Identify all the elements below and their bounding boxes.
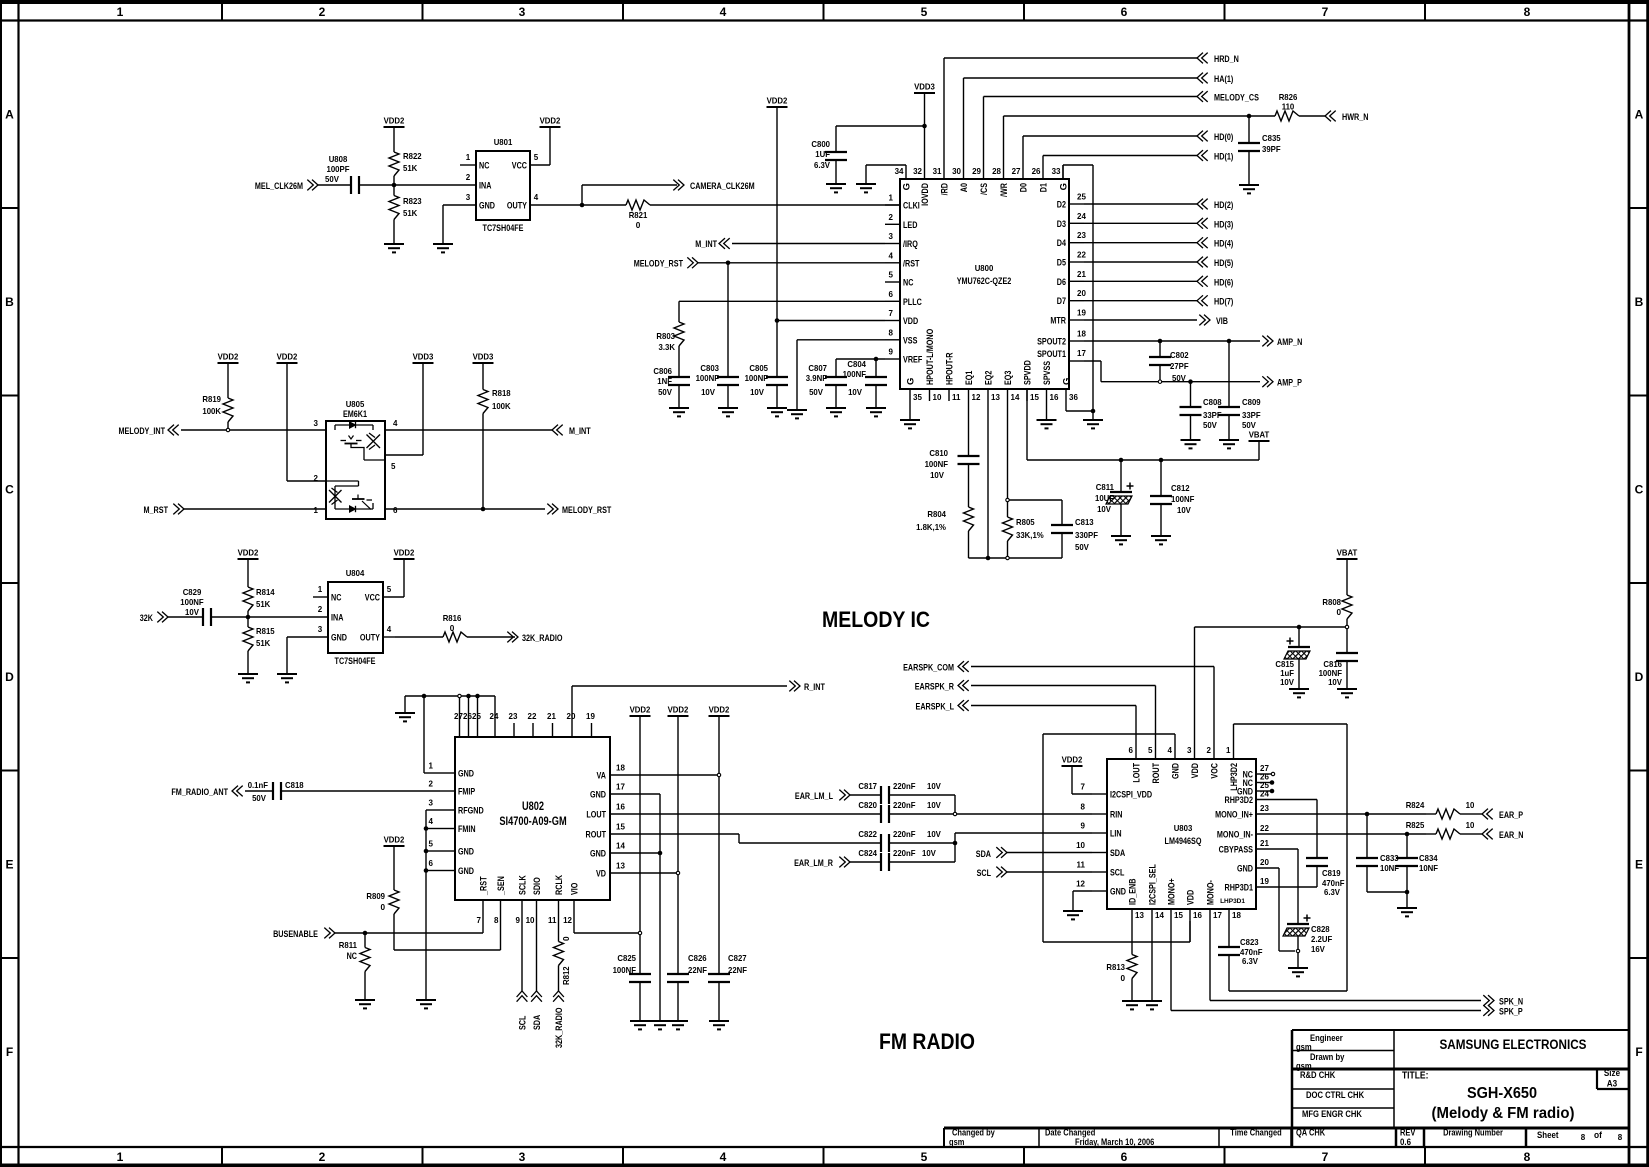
svg-text:15: 15 (1174, 911, 1183, 920)
svg-text:100NF: 100NF (843, 370, 866, 379)
svg-text:51K: 51K (256, 639, 270, 648)
svg-text:19: 19 (1077, 309, 1086, 318)
svg-text:32K_RADIO: 32K_RADIO (554, 1008, 565, 1049)
svg-text:EAR_N: EAR_N (1499, 830, 1524, 841)
svg-text:6: 6 (1121, 5, 1128, 19)
svg-text:SDA: SDA (976, 849, 991, 860)
svg-text:SI4700-A09-GM: SI4700-A09-GM (499, 814, 566, 828)
svg-text:3.9NF: 3.9NF (806, 374, 827, 383)
svg-text:100NF: 100NF (696, 374, 719, 383)
svg-text:VDD2: VDD2 (540, 117, 561, 126)
svg-text:10V: 10V (1328, 678, 1342, 687)
svg-text:15: 15 (1030, 393, 1039, 402)
svg-text:R804: R804 (927, 510, 946, 519)
svg-text:10: 10 (933, 393, 942, 402)
svg-text:10V: 10V (930, 471, 944, 480)
svg-text:SPVDD: SPVDD (1023, 360, 1034, 385)
svg-text:C808: C808 (1203, 398, 1222, 407)
svg-text:23: 23 (1077, 231, 1086, 240)
svg-text:SAMSUNG ELECTRONICS: SAMSUNG ELECTRONICS (1440, 1037, 1587, 1052)
svg-text:17: 17 (1213, 911, 1222, 920)
svg-text:4: 4 (534, 193, 539, 202)
svg-text:6: 6 (393, 506, 398, 515)
svg-text:gsm: gsm (1296, 1042, 1312, 1052)
svg-text:C834: C834 (1419, 854, 1438, 863)
svg-text:22: 22 (1260, 824, 1269, 833)
svg-text:13: 13 (1135, 911, 1144, 920)
svg-text:18: 18 (1077, 330, 1086, 339)
svg-text:R_INT: R_INT (804, 682, 825, 693)
svg-text:C812: C812 (1171, 484, 1190, 493)
svg-text:HD(3): HD(3) (1214, 219, 1233, 230)
svg-text:10V: 10V (185, 608, 199, 617)
svg-text:SDA: SDA (532, 1015, 543, 1030)
svg-text:15: 15 (616, 823, 625, 832)
svg-text:13: 13 (991, 393, 1000, 402)
svg-text:24: 24 (1077, 212, 1086, 221)
svg-text:10: 10 (1466, 801, 1475, 810)
svg-text:SDA: SDA (1110, 848, 1125, 859)
svg-text:100NF: 100NF (925, 460, 948, 469)
svg-text:8: 8 (1618, 1133, 1623, 1142)
svg-text:220nF: 220nF (893, 782, 916, 791)
svg-text:SPVSS: SPVSS (1042, 361, 1053, 385)
svg-text:D1: D1 (1039, 182, 1050, 192)
svg-text:R805: R805 (1016, 518, 1035, 527)
svg-text:32K: 32K (140, 613, 153, 624)
svg-text:50V: 50V (1242, 421, 1256, 430)
svg-text:CLKI: CLKI (903, 201, 920, 212)
svg-text:U801: U801 (494, 138, 513, 147)
svg-text:C833: C833 (1380, 854, 1399, 863)
svg-text:/CS: /CS (979, 183, 990, 195)
svg-text:C825: C825 (617, 954, 636, 963)
svg-text:0: 0 (1120, 974, 1125, 983)
svg-text:20: 20 (1260, 858, 1269, 867)
svg-text:GND: GND (458, 866, 474, 877)
svg-text:VBAT: VBAT (1249, 431, 1270, 440)
svg-text:R822: R822 (403, 152, 422, 161)
svg-text:2: 2 (1207, 746, 1212, 755)
svg-text:GND: GND (1110, 887, 1126, 898)
svg-text:C811: C811 (1096, 483, 1115, 492)
svg-text:INA: INA (331, 613, 343, 624)
svg-text:ID_ENB: ID_ENB (1128, 878, 1139, 905)
svg-text:TC7SH04FE: TC7SH04FE (335, 656, 376, 667)
svg-text:32K_RADIO: 32K_RADIO (522, 633, 563, 644)
svg-text:11: 11 (1077, 861, 1086, 870)
svg-text:34: 34 (895, 167, 904, 176)
svg-text:LM4946SQ: LM4946SQ (1165, 836, 1202, 847)
svg-text:FMIP: FMIP (458, 787, 476, 798)
svg-text:0: 0 (1336, 608, 1341, 617)
svg-text:VDD3: VDD3 (413, 353, 434, 362)
svg-text:M_RST: M_RST (144, 505, 169, 516)
svg-text:C815: C815 (1275, 660, 1294, 669)
svg-text:8: 8 (1524, 5, 1531, 19)
svg-text:Time Changed: Time Changed (1230, 1128, 1281, 1138)
svg-text:Date Changed: Date Changed (1045, 1128, 1095, 1138)
svg-text:A3: A3 (1607, 1079, 1617, 1089)
svg-text:35: 35 (913, 393, 922, 402)
svg-text:6: 6 (1121, 1150, 1128, 1164)
svg-text:16V: 16V (1311, 945, 1325, 954)
svg-text:R825: R825 (1406, 821, 1425, 830)
svg-text:C829: C829 (183, 588, 202, 597)
svg-text:17: 17 (616, 783, 625, 792)
svg-text:HD(6): HD(6) (1214, 277, 1233, 288)
svg-text:1NF: 1NF (657, 377, 672, 386)
svg-text:SPK_P: SPK_P (1499, 1007, 1523, 1018)
svg-text:R819: R819 (202, 395, 221, 404)
svg-text:VDD3: VDD3 (914, 83, 935, 92)
svg-text:LHP3D1: LHP3D1 (1220, 898, 1245, 905)
svg-text:39PF: 39PF (1262, 145, 1281, 154)
svg-text:MONO_IN+: MONO_IN+ (1215, 810, 1253, 821)
svg-text:32: 32 (913, 167, 922, 176)
svg-text:50V: 50V (809, 388, 823, 397)
svg-text:R818: R818 (492, 389, 511, 398)
svg-text:10V: 10V (1097, 505, 1111, 514)
svg-text:GND: GND (590, 849, 606, 860)
svg-text:A0: A0 (959, 183, 970, 192)
svg-text:5: 5 (387, 585, 392, 594)
svg-text:21: 21 (547, 712, 556, 721)
svg-text:50V: 50V (252, 794, 266, 803)
svg-text:C802: C802 (1170, 351, 1189, 360)
svg-text:8: 8 (1581, 1133, 1586, 1142)
svg-text:SCL: SCL (977, 868, 992, 879)
svg-text:220nF: 220nF (893, 849, 916, 858)
svg-text:VOC: VOC (1210, 763, 1221, 779)
svg-text:GND: GND (479, 201, 495, 212)
svg-text:VREF: VREF (903, 355, 922, 366)
svg-text:51K: 51K (403, 209, 417, 218)
svg-text:VIB: VIB (1216, 316, 1228, 327)
svg-text:10: 10 (1466, 821, 1475, 830)
svg-text:LOUT: LOUT (586, 810, 606, 821)
svg-text:MEL_CLK26M: MEL_CLK26M (255, 181, 303, 192)
svg-text:NC: NC (903, 278, 913, 289)
svg-text:33K,1%: 33K,1% (1016, 531, 1044, 540)
svg-text:IOVDD: IOVDD (920, 183, 931, 206)
svg-text:MELODY_RST: MELODY_RST (562, 505, 611, 516)
svg-text:VDD2: VDD2 (384, 117, 405, 126)
svg-text:Drawn by: Drawn by (1310, 1052, 1344, 1062)
svg-text:23: 23 (1260, 804, 1269, 813)
svg-text:1: 1 (889, 194, 894, 203)
svg-text:22NF: 22NF (728, 966, 747, 975)
svg-text:3: 3 (466, 193, 471, 202)
svg-text:BUSENABLE: BUSENABLE (273, 929, 318, 940)
svg-text:/IRQ: /IRQ (903, 239, 918, 250)
svg-text:16: 16 (616, 803, 625, 812)
svg-text:33PF: 33PF (1242, 411, 1261, 420)
svg-text:MELODY_INT: MELODY_INT (119, 426, 166, 437)
svg-text:HD(0): HD(0) (1214, 132, 1233, 143)
svg-text:Drawing Number: Drawing Number (1443, 1128, 1503, 1138)
svg-text:1: 1 (318, 585, 323, 594)
svg-text:EM6K1: EM6K1 (343, 409, 368, 420)
svg-text:HD(1): HD(1) (1214, 152, 1233, 163)
svg-text:18: 18 (616, 764, 625, 773)
svg-text:U802: U802 (522, 799, 544, 813)
svg-text:B: B (1635, 295, 1644, 309)
svg-text:D: D (5, 670, 14, 684)
svg-text:F: F (6, 1045, 13, 1059)
svg-text:TC7SH04FE: TC7SH04FE (483, 223, 524, 234)
svg-text:C817: C817 (858, 782, 877, 791)
svg-text:11: 11 (952, 393, 961, 402)
svg-text:20: 20 (567, 712, 576, 721)
svg-text:VSS: VSS (903, 335, 917, 346)
svg-text:3: 3 (318, 625, 323, 634)
svg-text:R803: R803 (656, 332, 675, 341)
svg-text:5: 5 (921, 5, 928, 19)
svg-text:3: 3 (519, 5, 526, 19)
svg-text:C826: C826 (688, 954, 707, 963)
svg-text:12: 12 (1076, 880, 1085, 889)
svg-text:51K: 51K (256, 600, 270, 609)
svg-text:7: 7 (1081, 783, 1086, 792)
svg-text:G: G (1059, 183, 1070, 190)
svg-text:5: 5 (429, 840, 434, 849)
svg-text:E: E (1635, 858, 1643, 872)
svg-text:RFGND: RFGND (458, 806, 484, 817)
svg-text:8: 8 (889, 328, 894, 337)
svg-text:PLLC: PLLC (903, 297, 922, 308)
svg-text:R808: R808 (1322, 598, 1341, 607)
svg-text:C813: C813 (1075, 518, 1094, 527)
svg-text:GND: GND (1237, 864, 1253, 875)
svg-text:G: G (902, 183, 913, 190)
svg-text:E: E (5, 858, 13, 872)
svg-text:4: 4 (387, 625, 392, 634)
svg-text:4: 4 (1168, 746, 1173, 755)
svg-text:A: A (5, 108, 14, 122)
svg-text:Engineer: Engineer (1310, 1033, 1343, 1043)
svg-text:5: 5 (1148, 746, 1153, 755)
svg-text:1: 1 (314, 506, 319, 515)
svg-text:50V: 50V (658, 388, 672, 397)
svg-text:F: F (1635, 1045, 1642, 1059)
svg-text:HPOUT-R: HPOUT-R (945, 352, 956, 385)
svg-text:16: 16 (1193, 911, 1202, 920)
svg-text:M_INT: M_INT (695, 239, 717, 250)
svg-text:14: 14 (1155, 911, 1164, 920)
svg-text:470nF: 470nF (1322, 879, 1345, 888)
svg-text:MTR: MTR (1050, 316, 1066, 327)
svg-text:VDD2: VDD2 (709, 706, 730, 715)
svg-text:C820: C820 (858, 801, 877, 810)
svg-text:10: 10 (526, 916, 535, 925)
svg-text:2: 2 (319, 1150, 326, 1164)
svg-text:U803: U803 (1174, 824, 1193, 833)
svg-text:R824: R824 (1406, 801, 1425, 810)
svg-text:D5: D5 (1057, 258, 1067, 269)
svg-text:RCLK: RCLK (554, 875, 565, 895)
svg-text:3: 3 (429, 799, 434, 808)
svg-text:C810: C810 (929, 449, 948, 458)
svg-text:VDD: VDD (1186, 890, 1197, 905)
svg-text:AMP_N: AMP_N (1277, 337, 1302, 348)
svg-text:EQ2: EQ2 (984, 371, 995, 385)
svg-text:C835: C835 (1262, 134, 1281, 143)
svg-text:R815: R815 (256, 627, 275, 636)
svg-text:C819: C819 (1322, 869, 1341, 878)
svg-text:R&D CHK: R&D CHK (1300, 1070, 1336, 1080)
svg-text:SPOUT1: SPOUT1 (1037, 349, 1066, 360)
svg-text:EARSPK_COM: EARSPK_COM (903, 663, 954, 674)
svg-text:A: A (1635, 108, 1644, 122)
svg-text:HD(2): HD(2) (1214, 200, 1233, 211)
svg-text:EQ3: EQ3 (1003, 371, 1014, 385)
svg-text:19: 19 (586, 712, 595, 721)
svg-text:R821: R821 (629, 211, 648, 220)
svg-text:100K: 100K (492, 402, 511, 411)
svg-text:10V: 10V (1177, 506, 1191, 515)
svg-text:Friday, March 10, 2006: Friday, March 10, 2006 (1075, 1137, 1154, 1147)
svg-text:(Melody & FM radio): (Melody & FM radio) (1432, 1105, 1575, 1122)
svg-text:2: 2 (889, 213, 894, 222)
svg-text:RHP3D1: RHP3D1 (1225, 883, 1254, 894)
svg-text:LIN: LIN (1110, 829, 1122, 840)
svg-text:51K: 51K (403, 164, 417, 173)
svg-text:C: C (5, 483, 14, 497)
svg-text:50V: 50V (1172, 374, 1186, 383)
svg-text:MELODY IC: MELODY IC (822, 607, 930, 632)
svg-text:EQ1: EQ1 (964, 370, 975, 385)
svg-text:VCC: VCC (365, 593, 380, 604)
svg-text:OUTY: OUTY (507, 201, 528, 212)
svg-text:2: 2 (319, 5, 326, 19)
svg-text:VDD2: VDD2 (277, 353, 298, 362)
svg-text:C824: C824 (858, 849, 877, 858)
svg-text:NC: NC (347, 951, 357, 962)
svg-text:TITLE:: TITLE: (1402, 1071, 1428, 1082)
svg-text:MONO+: MONO+ (1167, 878, 1178, 905)
svg-text:14: 14 (616, 842, 625, 851)
svg-text:FM RADIO: FM RADIO (879, 1029, 975, 1054)
svg-text:6.3V: 6.3V (814, 161, 831, 170)
svg-text:HD(5): HD(5) (1214, 258, 1233, 269)
svg-text:27PF: 27PF (1170, 362, 1189, 371)
svg-text:C803: C803 (700, 364, 719, 373)
svg-text:VDD2: VDD2 (668, 706, 689, 715)
svg-text:EARSPK_L: EARSPK_L (916, 702, 955, 713)
svg-text:29: 29 (972, 167, 981, 176)
svg-text:I2CSPI_SEL: I2CSPI_SEL (1148, 864, 1159, 905)
svg-text:3: 3 (519, 1150, 526, 1164)
svg-text:5: 5 (391, 462, 396, 471)
svg-text:C828: C828 (1311, 925, 1330, 934)
svg-text:2: 2 (318, 605, 323, 614)
svg-text:33: 33 (1052, 167, 1061, 176)
svg-text:SGH-X650: SGH-X650 (1467, 1085, 1537, 1102)
svg-text:VCC: VCC (512, 161, 527, 172)
svg-text:6: 6 (1129, 746, 1134, 755)
svg-text:330PF: 330PF (1075, 531, 1098, 540)
svg-text:ROUT: ROUT (1151, 763, 1162, 784)
svg-text:100NF: 100NF (1319, 669, 1342, 678)
svg-text:100NF: 100NF (613, 966, 636, 975)
svg-text:5: 5 (921, 1150, 928, 1164)
svg-text:REV: REV (1400, 1128, 1416, 1138)
svg-text:10V: 10V (848, 388, 862, 397)
svg-text:1: 1 (466, 153, 471, 162)
svg-text:Changed by: Changed by (952, 1128, 995, 1138)
svg-text:VDD2: VDD2 (767, 97, 788, 106)
svg-text:C822: C822 (858, 830, 877, 839)
svg-text:C805: C805 (749, 364, 768, 373)
svg-text:C806: C806 (653, 367, 672, 376)
svg-text:SCL: SCL (1110, 868, 1125, 879)
svg-text:MELODY_RST: MELODY_RST (634, 259, 683, 270)
svg-text:22: 22 (1077, 251, 1086, 260)
svg-text:4: 4 (720, 5, 727, 19)
svg-text:VDD2: VDD2 (394, 549, 415, 558)
svg-text:13: 13 (616, 862, 625, 871)
svg-text:EAR_LM_L: EAR_LM_L (795, 791, 833, 802)
svg-text:23: 23 (509, 712, 518, 721)
svg-text:INA: INA (479, 181, 491, 192)
svg-text:6: 6 (429, 859, 434, 868)
svg-text:OUTY: OUTY (360, 633, 381, 644)
svg-text:0: 0 (450, 624, 455, 633)
svg-text:24: 24 (490, 712, 499, 721)
svg-text:HA(1): HA(1) (1214, 74, 1233, 85)
svg-text:1: 1 (1226, 746, 1231, 755)
svg-text:C818: C818 (285, 781, 304, 790)
svg-text:D7: D7 (1057, 296, 1066, 307)
svg-text:100NF: 100NF (180, 598, 203, 607)
svg-text:HRD_N: HRD_N (1214, 54, 1239, 65)
svg-text:NC: NC (479, 161, 489, 172)
svg-text:10V: 10V (701, 388, 715, 397)
svg-text:U800: U800 (975, 264, 994, 273)
svg-text:4: 4 (889, 251, 894, 260)
svg-text:VBAT: VBAT (1337, 549, 1358, 558)
svg-text:18: 18 (1232, 911, 1241, 920)
svg-text:10V: 10V (750, 388, 764, 397)
svg-text:U808: U808 (329, 155, 348, 164)
svg-text:SPK_N: SPK_N (1499, 997, 1523, 1008)
svg-text:C816: C816 (1323, 660, 1342, 669)
svg-text:36: 36 (1069, 393, 1078, 402)
svg-text:EARSPK_R: EARSPK_R (915, 682, 954, 693)
svg-text:14: 14 (1011, 393, 1020, 402)
svg-text:3.3K: 3.3K (659, 343, 676, 352)
svg-text:R813: R813 (1106, 963, 1125, 972)
svg-text:100K: 100K (202, 407, 221, 416)
svg-text:D2: D2 (1057, 200, 1066, 211)
svg-text:8: 8 (494, 916, 499, 925)
svg-text:C823: C823 (1240, 938, 1259, 947)
svg-text:0: 0 (562, 936, 571, 941)
svg-text:C807: C807 (808, 364, 827, 373)
svg-text:C827: C827 (728, 954, 747, 963)
svg-text:VA: VA (597, 771, 607, 782)
svg-text:19: 19 (1260, 877, 1269, 886)
svg-text:/WR: /WR (999, 183, 1010, 197)
svg-text:50V: 50V (1203, 421, 1217, 430)
svg-text:10NF: 10NF (1380, 864, 1399, 873)
svg-text:GND: GND (331, 633, 347, 644)
svg-text:0: 0 (380, 903, 385, 912)
svg-text:5: 5 (889, 271, 894, 280)
svg-text:C800: C800 (811, 140, 830, 149)
svg-text:9: 9 (889, 348, 894, 357)
